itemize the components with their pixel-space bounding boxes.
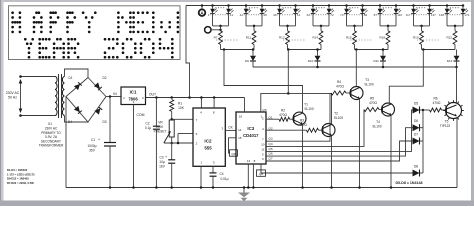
svg-text:1000μ: 1000μ xyxy=(88,144,97,148)
svg-text:+: + xyxy=(165,155,167,159)
svg-text:0.1μ: 0.1μ xyxy=(145,126,151,130)
svg-text:IC2: IC2 xyxy=(204,139,212,144)
svg-text:R7: R7 xyxy=(214,36,218,40)
svg-text:49: 49 xyxy=(273,13,277,17)
svg-text:16: 16 xyxy=(239,114,243,118)
svg-text:D9-D12 = 1N5402: D9-D12 = 1N5402 xyxy=(7,177,29,181)
svg-text:R18: R18 xyxy=(379,36,385,40)
svg-text:13: 13 xyxy=(247,159,251,163)
svg-text:IN: IN xyxy=(113,92,117,96)
svg-text:D3: D3 xyxy=(102,120,106,124)
svg-text:TIP122: TIP122 xyxy=(440,124,451,128)
svg-text:10μ: 10μ xyxy=(159,160,165,164)
svg-text:138: 138 xyxy=(439,13,444,17)
svg-text:117: 117 xyxy=(406,13,411,17)
svg-text:D1-D4 = 1N5402: D1-D4 = 1N5402 xyxy=(7,168,28,172)
svg-text:D5: D5 xyxy=(414,102,418,106)
svg-text:R19: R19 xyxy=(413,36,419,40)
svg-text:555: 555 xyxy=(204,146,212,151)
svg-text:Q7: Q7 xyxy=(268,156,272,160)
svg-text:IC1: IC1 xyxy=(130,90,137,95)
svg-text:Q5: Q5 xyxy=(268,147,272,151)
svg-text:CD4017: CD4017 xyxy=(243,133,259,138)
svg-text:C4: C4 xyxy=(219,172,223,176)
svg-text:Q3: Q3 xyxy=(268,137,272,141)
svg-text:R1: R1 xyxy=(178,102,182,106)
svg-text:R7-R22 = 220Ω, 0.5W: R7-R22 = 220Ω, 0.5W xyxy=(7,181,34,185)
svg-text:SL100: SL100 xyxy=(364,82,373,86)
svg-text:172: 172 xyxy=(464,13,469,17)
svg-text:230V AC: 230V AC xyxy=(6,91,20,95)
svg-text:D12: D12 xyxy=(447,59,453,63)
svg-text:C2: C2 xyxy=(145,122,149,126)
svg-text:10K: 10K xyxy=(178,106,185,110)
svg-text:470Ω: 470Ω xyxy=(299,123,307,127)
svg-text:41: 41 xyxy=(230,13,234,17)
svg-text:0.01μ: 0.01μ xyxy=(220,177,228,181)
svg-text:D11: D11 xyxy=(374,59,380,63)
svg-text:D8: D8 xyxy=(414,165,418,169)
svg-text:137: 137 xyxy=(431,13,436,17)
svg-text:62: 62 xyxy=(307,13,311,17)
svg-text:470Ω: 470Ω xyxy=(369,101,377,105)
svg-text:C1: C1 xyxy=(91,138,95,142)
svg-text:D4: D4 xyxy=(68,120,72,124)
svg-text:72: 72 xyxy=(330,13,334,17)
svg-text:15: 15 xyxy=(238,136,242,140)
svg-text:D9: D9 xyxy=(245,59,249,63)
svg-text:PRESET: PRESET xyxy=(154,130,167,134)
svg-text:+: + xyxy=(98,138,100,142)
svg-text:Q6: Q6 xyxy=(268,152,272,156)
svg-text:470Ω: 470Ω xyxy=(336,84,344,88)
svg-text:D10: D10 xyxy=(308,59,314,63)
svg-text:73: 73 xyxy=(340,13,344,17)
svg-text:COM: COM xyxy=(137,113,145,117)
svg-text:116: 116 xyxy=(397,13,402,17)
svg-text:50 Hz: 50 Hz xyxy=(8,96,17,100)
svg-text:14: 14 xyxy=(238,128,242,132)
svg-text:48: 48 xyxy=(263,13,267,17)
svg-text:R15: R15 xyxy=(346,36,352,40)
svg-text:IC3: IC3 xyxy=(247,126,254,131)
svg-text:1-172 = LED1-LED172: 1-172 = LED1-LED172 xyxy=(7,172,35,176)
svg-text:61: 61 xyxy=(297,13,301,17)
svg-text:TRANSFORMER: TRANSFORMER xyxy=(39,144,64,148)
svg-text:Q8: Q8 xyxy=(259,172,263,176)
svg-text:87: 87 xyxy=(374,13,378,17)
svg-text:R22: R22 xyxy=(446,36,452,40)
svg-text:86: 86 xyxy=(364,13,368,17)
svg-text:11: 11 xyxy=(261,148,264,152)
svg-text:42: 42 xyxy=(240,13,244,17)
svg-text:SL100: SL100 xyxy=(304,107,313,111)
svg-text:16V: 16V xyxy=(159,165,166,169)
svg-text:A: A xyxy=(200,10,203,15)
svg-text:D6: D6 xyxy=(414,119,418,123)
svg-text:R12: R12 xyxy=(279,36,285,40)
svg-text:R14: R14 xyxy=(312,36,318,40)
svg-text:R11: R11 xyxy=(246,36,252,40)
svg-text:T5: T5 xyxy=(445,120,449,124)
svg-text:470Ω: 470Ω xyxy=(433,101,441,105)
svg-text:Q4: Q4 xyxy=(268,142,272,146)
svg-text:D2: D2 xyxy=(102,76,106,80)
svg-text:D1: D1 xyxy=(68,76,72,80)
svg-text:C3: C3 xyxy=(159,156,163,160)
svg-text:SL100: SL100 xyxy=(334,116,343,120)
svg-text:T4: T4 xyxy=(376,120,380,124)
svg-text:OUT: OUT xyxy=(149,93,156,97)
svg-text:X1: X1 xyxy=(48,122,52,126)
svg-text:Q5: Q5 xyxy=(262,108,266,112)
svg-text:D5-D8 = 1N4148: D5-D8 = 1N4148 xyxy=(395,181,422,185)
svg-text:D7: D7 xyxy=(414,133,418,137)
svg-text:SL100: SL100 xyxy=(372,125,381,129)
svg-text:Q9: Q9 xyxy=(231,152,235,156)
svg-text:470Ω: 470Ω xyxy=(279,113,287,117)
svg-text:VR: VR xyxy=(158,121,163,125)
svg-text:35V: 35V xyxy=(89,149,96,153)
svg-text:100K: 100K xyxy=(156,125,164,129)
svg-text:10: 10 xyxy=(261,143,265,147)
